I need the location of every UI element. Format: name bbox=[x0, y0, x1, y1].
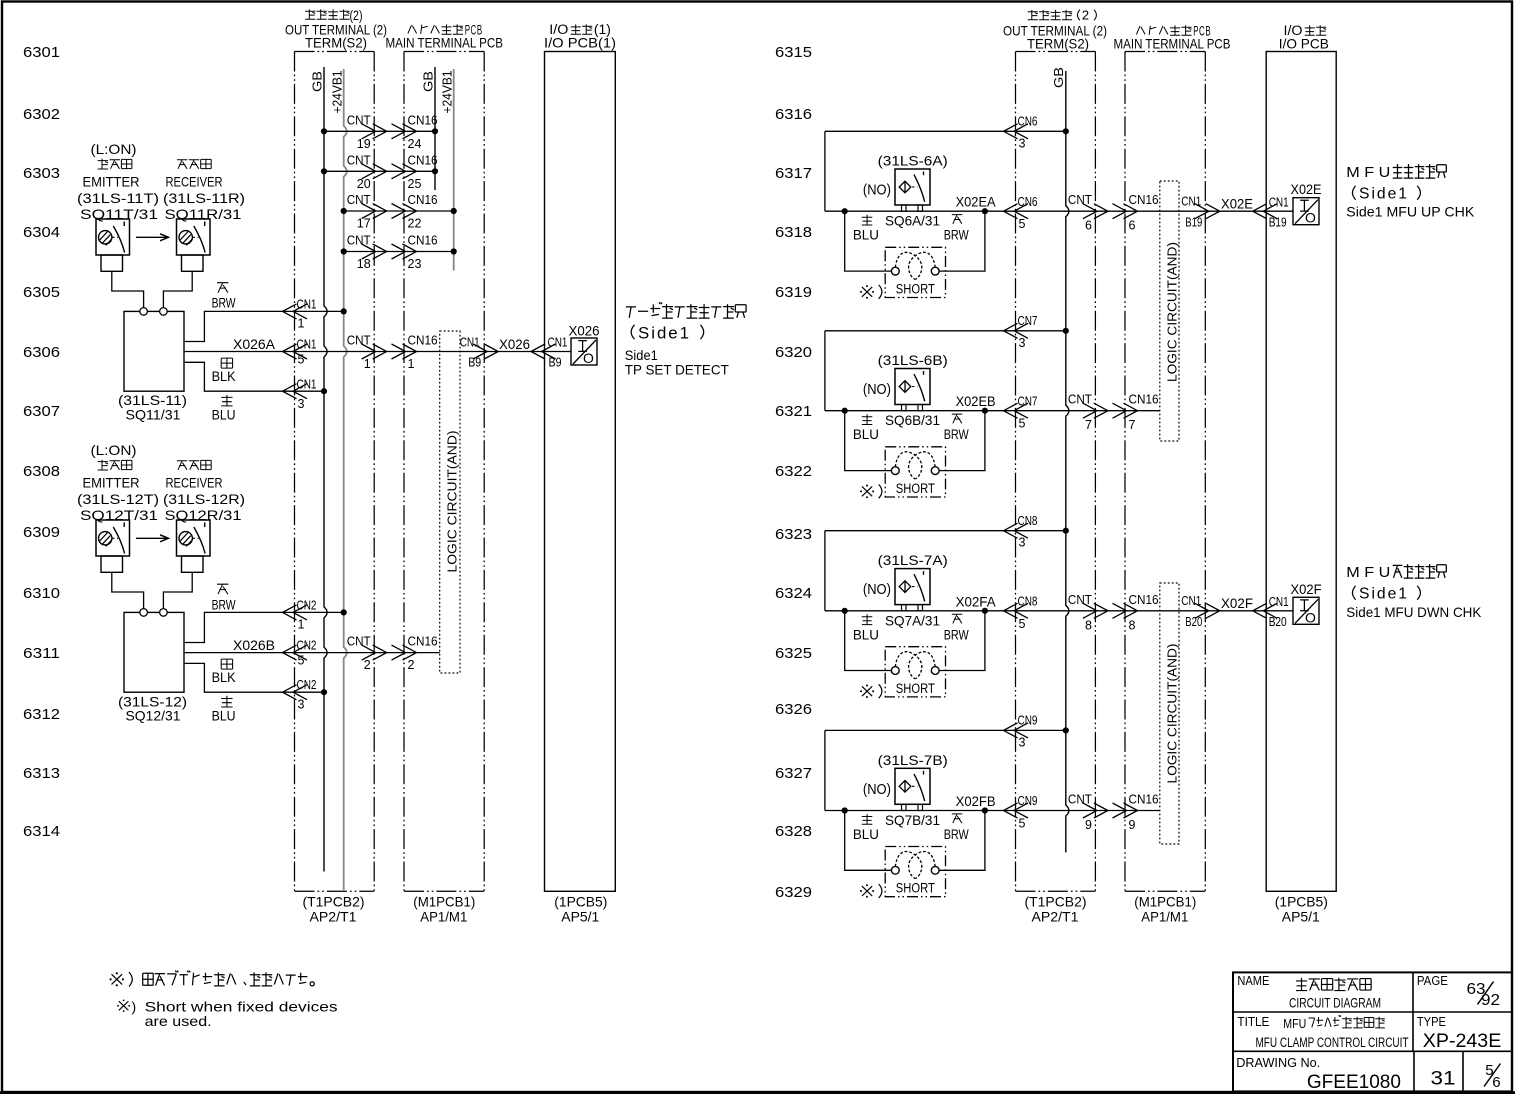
svg-text:AP2/T1: AP2/T1 bbox=[310, 908, 357, 924]
logic circuit (AND) dotted box right upper bbox=[1160, 181, 1180, 441]
svg-text:3: 3 bbox=[1019, 536, 1026, 550]
wire X026 output: CN1-B9 to I/O PCB bbox=[460, 336, 571, 370]
svg-text:CN8: CN8 bbox=[1018, 514, 1038, 528]
svg-text:O: O bbox=[1305, 609, 1316, 625]
svg-text:Side1 MFU DWN CHK: Side1 MFU DWN CHK bbox=[1346, 604, 1482, 620]
svg-text:X02EA: X02EA bbox=[956, 194, 997, 210]
svg-text:8: 8 bbox=[1129, 618, 1136, 632]
svg-text:M F U: M F U bbox=[1346, 564, 1390, 581]
svg-text:CN1: CN1 bbox=[1181, 594, 1201, 608]
SHORT jumper plug (fixed-device option) SQ7A/31 bbox=[885, 647, 945, 697]
svg-text:(NO): (NO) bbox=[863, 781, 891, 798]
svg-text:5: 5 bbox=[1019, 617, 1026, 631]
svg-text:SQ12/31: SQ12/31 bbox=[126, 708, 181, 724]
svg-text:AP2/T1: AP2/T1 bbox=[1032, 908, 1079, 924]
svg-text:TITLE: TITLE bbox=[1237, 1014, 1269, 1029]
svg-text:CN1: CN1 bbox=[297, 377, 317, 391]
svg-text:6323: 6323 bbox=[775, 526, 812, 543]
svg-text:6301: 6301 bbox=[23, 44, 60, 61]
junction box (31LS-12) SQ12/31 bbox=[118, 609, 187, 724]
svg-text:O: O bbox=[1305, 210, 1316, 226]
wire CN9-3 common return loop bbox=[825, 714, 1069, 811]
wire BLU blue: junction box to TERM CN1-3 bbox=[184, 362, 327, 422]
svg-text:are used.: are used. bbox=[145, 1013, 212, 1029]
svg-text:M F U: M F U bbox=[1346, 164, 1390, 181]
light beam arrow emitter to receiver bbox=[136, 234, 169, 241]
svg-text:Side1: Side1 bbox=[1359, 186, 1409, 203]
logic circuit (AND) dotted box left half bbox=[440, 331, 460, 673]
wire CN6-3 common return loop bbox=[825, 115, 1069, 212]
svg-text:CN1: CN1 bbox=[1269, 195, 1289, 209]
limit switch (31LS-7B) SQ7B/31 bbox=[863, 752, 948, 828]
I/O point symbol X02F bbox=[1291, 581, 1322, 626]
title block: NAME circuit diagram bbox=[1237, 973, 1381, 1011]
svg-text:SQ11/31: SQ11/31 bbox=[126, 406, 181, 422]
svg-text:CN2: CN2 bbox=[297, 639, 317, 653]
svg-text:1: 1 bbox=[298, 317, 305, 331]
svg-text:SHORT: SHORT bbox=[896, 881, 935, 896]
svg-text:BRW: BRW bbox=[944, 827, 969, 842]
svg-text:BLU: BLU bbox=[853, 827, 879, 842]
wire switch row X02EA bbox=[825, 193, 1205, 233]
svg-text:CN16: CN16 bbox=[408, 635, 438, 649]
svg-text:BLK: BLK bbox=[212, 369, 236, 384]
right margin line numbers 6315-6329 bbox=[775, 44, 812, 901]
svg-text:SQ12T/31: SQ12T/31 bbox=[80, 507, 158, 523]
svg-text:6326: 6326 bbox=[775, 701, 812, 718]
svg-text:1: 1 bbox=[298, 618, 305, 632]
svg-text:2: 2 bbox=[1082, 8, 1089, 23]
wire BRW brown: junction box to TERM CN1-1 bbox=[184, 283, 347, 342]
svg-text:SQ7A/31: SQ7A/31 bbox=[885, 612, 940, 628]
svg-text:6324: 6324 bbox=[775, 585, 812, 602]
svg-text:5: 5 bbox=[1019, 417, 1026, 431]
svg-text:CN16: CN16 bbox=[1129, 593, 1159, 607]
svg-text:X02E: X02E bbox=[1291, 181, 1322, 197]
svg-text:GB: GB bbox=[310, 71, 325, 92]
svg-text:(NO): (NO) bbox=[863, 182, 891, 199]
title block frame bbox=[1233, 972, 1512, 1091]
svg-text:BRW: BRW bbox=[212, 296, 236, 311]
wire X026B BLK black: junction box 2 to TERM CN2-5 / CNT2 / CN16-2 bbox=[184, 635, 440, 685]
svg-text:AP1/M1: AP1/M1 bbox=[420, 908, 467, 924]
svg-text:6315: 6315 bbox=[775, 44, 812, 61]
svg-text:31: 31 bbox=[1431, 1069, 1456, 1090]
wire BLU branch to SHORT jumper SQ7B/31 bbox=[845, 811, 892, 871]
svg-text:CNT: CNT bbox=[1068, 193, 1092, 207]
svg-text:AP5/1: AP5/1 bbox=[1282, 908, 1320, 924]
svg-text:CNT: CNT bbox=[347, 193, 371, 207]
svg-text:5: 5 bbox=[298, 353, 305, 367]
svg-text:2: 2 bbox=[408, 658, 415, 672]
left GB bus vertical (TERM) bbox=[310, 67, 328, 872]
svg-text:RECEIVER: RECEIVER bbox=[166, 174, 223, 190]
svg-text:6320: 6320 bbox=[775, 344, 812, 361]
svg-text:5: 5 bbox=[1019, 217, 1026, 231]
svg-text:GB: GB bbox=[421, 71, 436, 92]
wire X02E to I/O PCB CN1-B19 bbox=[1181, 194, 1293, 229]
svg-text:6328: 6328 bbox=[775, 823, 812, 840]
note: short when fixed devices (English) bbox=[117, 999, 338, 1030]
svg-text:BRW: BRW bbox=[944, 427, 969, 442]
svg-text:SHORT: SHORT bbox=[896, 281, 935, 296]
right TERM(S2) board outline (chain box) bbox=[1016, 52, 1096, 892]
I/O point symbol X026 bbox=[569, 322, 600, 366]
limit switch (31LS-7A) SQ7A/31 bbox=[863, 552, 948, 628]
svg-text:(31LS-6A): (31LS-6A) bbox=[878, 153, 948, 169]
svg-text:9: 9 bbox=[1129, 818, 1136, 832]
svg-text:3: 3 bbox=[1019, 136, 1026, 150]
svg-text:3: 3 bbox=[298, 697, 305, 711]
svg-text:22: 22 bbox=[408, 217, 422, 231]
svg-text:CN1: CN1 bbox=[460, 336, 480, 350]
svg-text:CN16: CN16 bbox=[408, 153, 438, 167]
svg-text:6311: 6311 bbox=[23, 645, 60, 662]
svg-text:X026: X026 bbox=[499, 336, 530, 352]
annotation: TP SET DETECT (Side1) bbox=[625, 302, 746, 377]
svg-text:(31LS-6B): (31LS-6B) bbox=[878, 352, 948, 368]
svg-text:CN16: CN16 bbox=[1129, 193, 1159, 207]
svg-text:5: 5 bbox=[1019, 817, 1026, 831]
wire X02F to I/O PCB CN1-B20 bbox=[1181, 594, 1293, 629]
left column header: MAIN TERMINAL PCB bbox=[386, 22, 504, 50]
left column header: I/O PCB(1) bbox=[544, 22, 616, 51]
svg-text:(M1PCB1): (M1PCB1) bbox=[1134, 894, 1196, 910]
svg-text:TP SET DETECT: TP SET DETECT bbox=[625, 361, 729, 377]
svg-text:PAGE: PAGE bbox=[1417, 973, 1448, 988]
MAIN GB bus vertical (left half) bbox=[421, 67, 436, 190]
svg-text:RECEIVER: RECEIVER bbox=[166, 475, 223, 491]
svg-text:SQ7B/31: SQ7B/31 bbox=[885, 812, 940, 828]
svg-text:1: 1 bbox=[364, 357, 371, 371]
emitter sensor (31LS-12T) SQ12T/31 bbox=[77, 442, 159, 572]
wire BLU branch to SHORT jumper SQ6A/31 bbox=[845, 211, 892, 271]
wire BRW branch to SHORT jumper SQ7A/31 bbox=[939, 611, 985, 671]
svg-text:MAIN TERMINAL PCB: MAIN TERMINAL PCB bbox=[1114, 36, 1231, 52]
svg-text:CNT: CNT bbox=[347, 113, 371, 127]
svg-text:6325: 6325 bbox=[775, 645, 812, 662]
svg-text:6307: 6307 bbox=[23, 403, 60, 420]
SHORT jumper plug (fixed-device option) SQ7B/31 bbox=[885, 847, 945, 897]
wire emitter to junction box bbox=[112, 271, 144, 308]
svg-text:6303: 6303 bbox=[23, 165, 60, 182]
svg-text:X02E: X02E bbox=[1221, 196, 1253, 212]
wire switch row X02EB bbox=[825, 393, 1160, 433]
left MAIN TERMINAL PCB outline (chain box) bbox=[404, 52, 484, 892]
right column header: MAIN TERMINAL PCB bbox=[1114, 23, 1231, 51]
title block: PAGE 63/92 bbox=[1417, 973, 1500, 1009]
svg-text:BRW: BRW bbox=[212, 597, 236, 612]
svg-text:23: 23 bbox=[408, 257, 422, 271]
svg-text:6318: 6318 bbox=[775, 224, 812, 241]
svg-text:9: 9 bbox=[1085, 818, 1092, 832]
svg-text:BLU: BLU bbox=[853, 627, 879, 642]
svg-text:1: 1 bbox=[408, 357, 415, 371]
svg-text:X02FA: X02FA bbox=[956, 593, 997, 609]
left margin line numbers 6301-6314 bbox=[23, 44, 60, 840]
wire CN8-3 common return loop bbox=[825, 514, 1069, 611]
svg-text:6304: 6304 bbox=[23, 224, 60, 241]
svg-text:(M1PCB1): (M1PCB1) bbox=[413, 894, 475, 910]
svg-text:CN1: CN1 bbox=[1269, 595, 1289, 609]
svg-text:92: 92 bbox=[1481, 992, 1500, 1009]
svg-text:(T1PCB2): (T1PCB2) bbox=[303, 894, 365, 910]
svg-text:B19: B19 bbox=[1269, 215, 1287, 229]
title block: DRAWING No. GFEE1080 31 5/6 bbox=[1236, 1055, 1500, 1093]
wire receiver to junction box bbox=[163, 271, 192, 308]
svg-text:X026B: X026B bbox=[233, 637, 275, 653]
svg-text:XP-243E: XP-243E bbox=[1423, 1031, 1502, 1052]
svg-text:I/O PCB(1): I/O PCB(1) bbox=[544, 35, 616, 51]
svg-text:3: 3 bbox=[298, 397, 305, 411]
logic circuit (AND) dotted box right lower bbox=[1160, 583, 1180, 844]
svg-text:20: 20 bbox=[357, 177, 371, 191]
svg-text:(L:ON): (L:ON) bbox=[91, 442, 137, 458]
right I/O PCB outline (solid box) bbox=[1266, 52, 1336, 892]
wire BLU blue: junction box 2 to TERM CN2-3 bbox=[184, 663, 327, 723]
wire switch row X02FA bbox=[825, 593, 1205, 633]
svg-text:TERM(S2): TERM(S2) bbox=[1027, 36, 1089, 52]
svg-text:6308: 6308 bbox=[23, 463, 60, 480]
svg-text:+24VB1: +24VB1 bbox=[440, 71, 455, 114]
svg-text:6310: 6310 bbox=[23, 585, 60, 602]
svg-text:6317: 6317 bbox=[775, 165, 812, 182]
svg-text:X02F: X02F bbox=[1291, 581, 1322, 597]
svg-text:BLU: BLU bbox=[212, 407, 236, 422]
wire BRW branch to SHORT jumper SQ7B/31 bbox=[939, 811, 985, 871]
receiver sensor (31LS-11R) SQ11R/31 bbox=[163, 159, 245, 271]
wire +24VB1: CNT18 to CN16-23 bbox=[341, 234, 457, 272]
svg-text:X02FB: X02FB bbox=[956, 793, 996, 809]
svg-text:CNT: CNT bbox=[1068, 593, 1092, 607]
wire GB: CNT19 to CN16-24 bbox=[321, 113, 438, 151]
svg-text:SHORT: SHORT bbox=[896, 681, 935, 696]
svg-text:6306: 6306 bbox=[23, 344, 60, 361]
svg-text:CN16: CN16 bbox=[408, 234, 438, 248]
svg-text:SQ11T/31: SQ11T/31 bbox=[80, 206, 158, 222]
svg-text:SHORT: SHORT bbox=[896, 481, 935, 496]
svg-text:18: 18 bbox=[357, 257, 371, 271]
svg-text:(T1PCB2): (T1PCB2) bbox=[1025, 894, 1087, 910]
SHORT jumper plug (fixed-device option) SQ6A/31 bbox=[885, 247, 945, 297]
svg-text:X02F: X02F bbox=[1221, 595, 1253, 611]
svg-text:7: 7 bbox=[1129, 418, 1136, 432]
svg-text:EMITTER: EMITTER bbox=[83, 174, 140, 190]
svg-text:6309: 6309 bbox=[23, 524, 60, 541]
svg-text:BRW: BRW bbox=[944, 627, 969, 642]
label (1PCB5) AP5/1 under right I/O PCB bbox=[1275, 894, 1328, 925]
svg-text:BLU: BLU bbox=[853, 427, 879, 442]
svg-text:6329: 6329 bbox=[775, 884, 812, 901]
svg-text:(1PCB5): (1PCB5) bbox=[554, 894, 607, 910]
svg-text:SQ6A/31: SQ6A/31 bbox=[885, 213, 940, 229]
svg-text:): ) bbox=[132, 999, 137, 1015]
svg-text:CN2: CN2 bbox=[297, 678, 317, 692]
svg-text:CN7: CN7 bbox=[1018, 314, 1038, 328]
note: short when fixed devices (Japanese) bbox=[110, 971, 315, 987]
svg-text:6: 6 bbox=[1492, 1074, 1500, 1091]
svg-text:CN2: CN2 bbox=[297, 598, 317, 612]
svg-text:6313: 6313 bbox=[23, 765, 60, 782]
note marker for SHORT SQ6A/31 bbox=[860, 285, 882, 299]
svg-text:MFU: MFU bbox=[1283, 1017, 1306, 1031]
limit switch (31LS-6A) SQ6A/31 bbox=[863, 153, 948, 229]
wire emitter to junction box bbox=[112, 572, 144, 609]
svg-text:(NO): (NO) bbox=[863, 381, 891, 398]
wire BRW branch to SHORT jumper SQ6A/31 bbox=[939, 211, 985, 271]
svg-text:CN16: CN16 bbox=[1129, 393, 1159, 407]
svg-text:CN1: CN1 bbox=[297, 338, 317, 352]
svg-text:EMITTER: EMITTER bbox=[83, 475, 140, 491]
svg-text:GB: GB bbox=[1051, 67, 1066, 88]
svg-text:Side1: Side1 bbox=[1359, 586, 1409, 603]
svg-text:(31LS-7B): (31LS-7B) bbox=[878, 752, 948, 768]
svg-text:(L:ON): (L:ON) bbox=[91, 141, 137, 157]
right GB bus vertical (TERM) bbox=[1051, 67, 1069, 852]
wire switch row X02FB bbox=[825, 793, 1160, 833]
svg-text:CN6: CN6 bbox=[1018, 115, 1038, 129]
svg-text:TERM(S2): TERM(S2) bbox=[305, 35, 367, 51]
note marker for SHORT SQ7A/31 bbox=[860, 684, 882, 698]
svg-text:CIRCUIT DIAGRAM: CIRCUIT DIAGRAM bbox=[1289, 995, 1381, 1011]
svg-text:SQ6B/31: SQ6B/31 bbox=[885, 412, 940, 428]
light beam arrow emitter to receiver bbox=[136, 535, 169, 542]
svg-text:CN9: CN9 bbox=[1018, 794, 1038, 808]
svg-text:CN9: CN9 bbox=[1018, 714, 1038, 728]
left column header: OUT TERMINAL(2) / TERM(S2) bbox=[285, 8, 387, 51]
annotation: MFU UP CHK (Side1) bbox=[1346, 164, 1475, 219]
svg-text:6305: 6305 bbox=[23, 284, 60, 301]
svg-text:TYPE: TYPE bbox=[1417, 1014, 1446, 1029]
svg-text:DRAWING No.: DRAWING No. bbox=[1236, 1055, 1320, 1070]
svg-text:X026A: X026A bbox=[233, 336, 276, 352]
svg-text:CNT: CNT bbox=[347, 334, 371, 348]
title block: TITLE MFU clamp control circuit bbox=[1237, 1014, 1408, 1050]
svg-text:B19: B19 bbox=[1185, 215, 1202, 229]
svg-text:BLK: BLK bbox=[212, 670, 236, 685]
wire GB: CNT20 to CN16-25 bbox=[321, 153, 438, 191]
left +24VB1 bus vertical (TERM, gray) bbox=[330, 69, 347, 891]
svg-text:(31LS-12T): (31LS-12T) bbox=[77, 491, 159, 507]
svg-text:LOGIC CIRCUIT(AND): LOGIC CIRCUIT(AND) bbox=[1164, 242, 1179, 382]
svg-text:+24VB1: +24VB1 bbox=[330, 71, 345, 114]
svg-text:CN16: CN16 bbox=[408, 193, 438, 207]
svg-text:CN16: CN16 bbox=[1129, 793, 1159, 807]
svg-text:6327: 6327 bbox=[775, 765, 812, 782]
svg-text:I/O PCB: I/O PCB bbox=[1279, 36, 1329, 52]
svg-text:MAIN TERMINAL PCB: MAIN TERMINAL PCB bbox=[386, 35, 504, 51]
junction box (31LS-11) SQ11/31 bbox=[118, 308, 187, 423]
svg-text:(31LS-7A): (31LS-7A) bbox=[878, 552, 948, 568]
svg-text:CN6: CN6 bbox=[1018, 195, 1038, 209]
SHORT jumper plug (fixed-device option) SQ6B/31 bbox=[885, 447, 945, 497]
svg-text:6322: 6322 bbox=[775, 463, 812, 480]
svg-text:(31LS-11T): (31LS-11T) bbox=[77, 190, 159, 206]
left I/O PCB outline (solid box) bbox=[545, 52, 616, 892]
right column header: OUT TERMINAL(2) / TERM(S2) bbox=[1003, 8, 1107, 52]
svg-text:B20: B20 bbox=[1269, 615, 1287, 629]
svg-text:19: 19 bbox=[357, 137, 371, 151]
label (M1PCB1) AP1/M1 under left MAIN bbox=[413, 894, 475, 925]
svg-text:6321: 6321 bbox=[775, 403, 812, 420]
svg-text:CN7: CN7 bbox=[1018, 394, 1038, 408]
svg-text:(NO): (NO) bbox=[863, 581, 891, 598]
svg-text:B9: B9 bbox=[549, 355, 562, 369]
svg-text:(31LS-12R): (31LS-12R) bbox=[163, 491, 245, 507]
label (T1PCB2) AP2/T1 under right TERM bbox=[1025, 894, 1087, 925]
svg-text:8: 8 bbox=[1085, 618, 1092, 632]
svg-text:6316: 6316 bbox=[775, 106, 812, 123]
svg-text:AP5/1: AP5/1 bbox=[561, 908, 599, 924]
svg-text:BLU: BLU bbox=[853, 228, 879, 243]
svg-text:6: 6 bbox=[1085, 219, 1092, 233]
wire BLU branch to SHORT jumper SQ6B/31 bbox=[845, 411, 892, 471]
wire BRW branch to SHORT jumper SQ6B/31 bbox=[939, 411, 985, 471]
svg-text:CN1: CN1 bbox=[548, 336, 568, 350]
right MAIN TERMINAL PCB outline (chain box) bbox=[1125, 52, 1205, 892]
svg-text:AP1/M1: AP1/M1 bbox=[1141, 908, 1188, 924]
svg-text:7: 7 bbox=[1085, 418, 1092, 432]
svg-text:CN16: CN16 bbox=[408, 113, 438, 127]
svg-text:B9: B9 bbox=[468, 355, 481, 369]
svg-text:Side1 MFU UP CHK: Side1 MFU UP CHK bbox=[1346, 203, 1475, 219]
emitter sensor (31LS-11T) SQ11T/31 bbox=[77, 141, 159, 271]
svg-text:6302: 6302 bbox=[23, 106, 60, 123]
wire BLU branch to SHORT jumper SQ7A/31 bbox=[845, 611, 892, 671]
svg-text:(31LS-11R): (31LS-11R) bbox=[163, 190, 245, 206]
svg-text:BRW: BRW bbox=[944, 228, 969, 243]
svg-text:MFU CLAMP CONTROL CIRCUIT: MFU CLAMP CONTROL CIRCUIT bbox=[1256, 1035, 1409, 1050]
svg-text:6314: 6314 bbox=[23, 823, 60, 840]
note marker for SHORT SQ6B/31 bbox=[860, 484, 882, 498]
svg-text:3: 3 bbox=[1019, 735, 1026, 749]
svg-text:LOGIC CIRCUIT(AND): LOGIC CIRCUIT(AND) bbox=[445, 431, 460, 573]
svg-text:CN1: CN1 bbox=[1181, 194, 1201, 208]
note marker for SHORT SQ7B/31 bbox=[860, 884, 882, 898]
svg-text:CN16: CN16 bbox=[408, 334, 438, 348]
svg-text:BLU: BLU bbox=[212, 708, 236, 723]
label (1PCB5) AP5/1 under left I/O PCB bbox=[554, 894, 607, 925]
svg-text:6312: 6312 bbox=[23, 706, 60, 723]
svg-text:3: 3 bbox=[1019, 336, 1026, 350]
svg-text:B20: B20 bbox=[1185, 615, 1202, 629]
label (T1PCB2) AP2/T1 under left TERM bbox=[303, 894, 365, 925]
svg-text:24: 24 bbox=[408, 137, 422, 151]
wire +24VB1: CNT17 to CN16-22 bbox=[341, 193, 457, 231]
right column header: I/O PCB bbox=[1279, 23, 1329, 52]
wire receiver to junction box bbox=[163, 572, 192, 609]
svg-text:CNT: CNT bbox=[1068, 793, 1092, 807]
left TERM(S2) board outline (chain box) bbox=[295, 52, 375, 892]
svg-text:CNT: CNT bbox=[347, 635, 371, 649]
svg-text:O: O bbox=[583, 350, 594, 366]
svg-text:(1PCB5): (1PCB5) bbox=[1275, 894, 1328, 910]
svg-text:NAME: NAME bbox=[1237, 973, 1269, 988]
annotation: MFU DWN CHK (Side1) bbox=[1346, 564, 1482, 620]
MAIN +24VB1 bus vertical (left half, gray) bbox=[440, 69, 455, 271]
svg-text:CN8: CN8 bbox=[1018, 595, 1038, 609]
svg-text:25: 25 bbox=[408, 177, 422, 191]
wire BRW brown: junction box 2 to TERM CN2-1 bbox=[184, 584, 347, 642]
wire CN7-3 common return loop bbox=[825, 314, 1069, 411]
label (M1PCB1) AP1/M1 under right MAIN bbox=[1134, 894, 1196, 925]
svg-text:GFEE1080: GFEE1080 bbox=[1307, 1072, 1401, 1093]
svg-text:CNT: CNT bbox=[347, 234, 371, 248]
title block: TYPE XP-243E bbox=[1417, 1014, 1501, 1052]
svg-text:LOGIC CIRCUIT(AND): LOGIC CIRCUIT(AND) bbox=[1164, 644, 1179, 784]
receiver sensor (31LS-12R) SQ12R/31 bbox=[163, 460, 245, 572]
svg-text:Short when fixed devices: Short when fixed devices bbox=[145, 999, 338, 1015]
